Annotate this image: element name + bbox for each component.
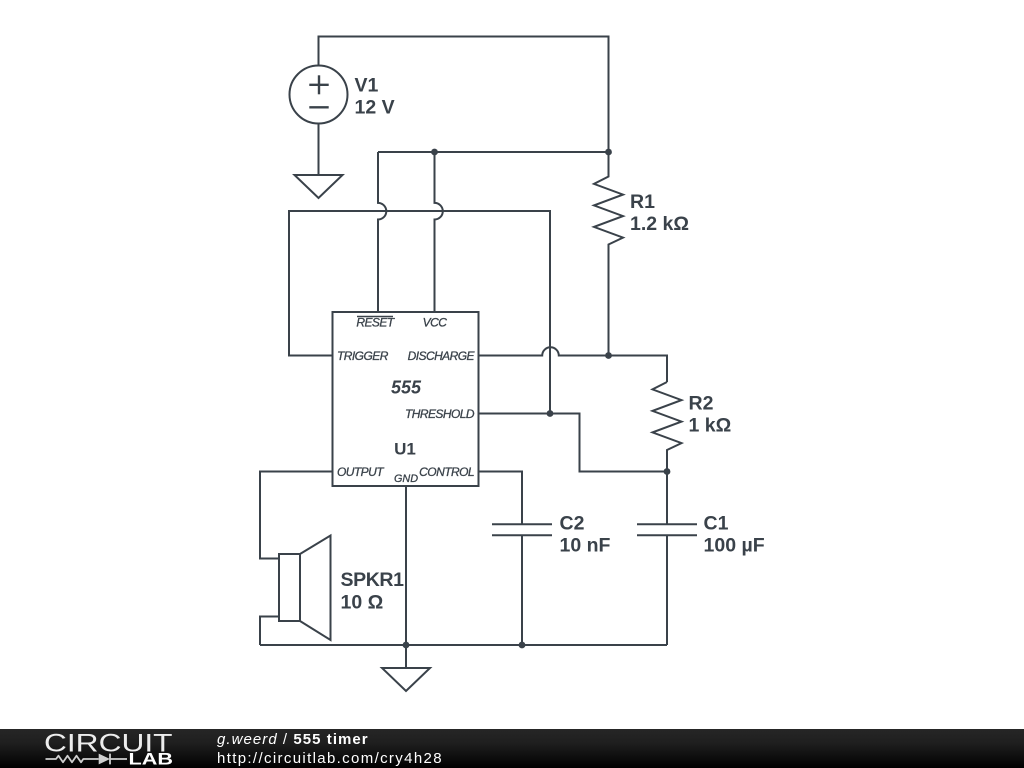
wire: VCC vertical with hop bbox=[435, 152, 443, 312]
svg-text:RESET: RESET bbox=[356, 316, 395, 330]
wire: V1 plus to top rail and down to R1 node bbox=[319, 37, 609, 153]
wire: C2 bottom lead bbox=[521, 535, 523, 645]
node: C2 bottom junction bbox=[519, 642, 526, 649]
svg-text:TRIGGER: TRIGGER bbox=[337, 349, 389, 363]
svg-text:DISCHARGE: DISCHARGE bbox=[408, 349, 476, 363]
svg-text:C1: C1 bbox=[704, 513, 729, 535]
svg-text:LAB: LAB bbox=[129, 751, 174, 768]
wire: supply rail y=152 bbox=[378, 151, 609, 153]
svg-text:555: 555 bbox=[391, 378, 422, 398]
capacitor C1 bbox=[637, 524, 697, 535]
node: threshold junction bbox=[547, 410, 554, 417]
svg-text:1 kΩ: 1 kΩ bbox=[689, 415, 732, 437]
svg-text:THRESHOLD: THRESHOLD bbox=[405, 407, 475, 421]
svg-text:10 Ω: 10 Ω bbox=[341, 592, 384, 614]
wire: C1 bottom lead bbox=[666, 535, 668, 645]
op-amp/timer IC U1 box bbox=[333, 312, 479, 486]
label V1 value bbox=[355, 75, 395, 119]
svg-text:GND: GND bbox=[394, 473, 418, 485]
wire: V1 minus to ground bbox=[318, 123, 320, 176]
CircuitLab logo resistor-diode glyph bbox=[46, 754, 128, 765]
svg-text:C2: C2 bbox=[560, 513, 585, 535]
wire: trigger/threshold net bbox=[289, 211, 550, 414]
svg-text:12 V: 12 V bbox=[355, 97, 395, 119]
label R2 value bbox=[689, 393, 732, 437]
svg-text:R1: R1 bbox=[630, 191, 655, 213]
svg-text:U1: U1 bbox=[394, 440, 416, 459]
svg-text:R2: R2 bbox=[689, 393, 714, 415]
wire: discharge net with hop over trigger vertical bbox=[479, 347, 668, 382]
wire: ground stem bbox=[405, 645, 407, 668]
ground (bottom) bbox=[382, 668, 430, 691]
footer url bbox=[217, 750, 443, 767]
label C1 value bbox=[704, 513, 765, 557]
wire: threshold net bbox=[479, 414, 668, 472]
footer credit text bbox=[217, 731, 369, 748]
overline for RESET pin label bbox=[357, 316, 393, 318]
wire: bottom ground rail bbox=[260, 644, 667, 646]
wire: speaker bottom terminal to ground rail bbox=[260, 617, 279, 646]
node: discharge junction bbox=[605, 352, 612, 359]
svg-text:V1: V1 bbox=[355, 75, 379, 97]
speaker SPKR1 bbox=[279, 536, 331, 641]
voltage source V1 bbox=[290, 66, 348, 124]
svg-text:SPKR1: SPKR1 bbox=[341, 569, 405, 591]
label R1 value bbox=[630, 191, 689, 235]
wire: C1 top lead bbox=[666, 472, 668, 525]
node: gnd rail junction bbox=[403, 642, 410, 649]
label C2 value bbox=[560, 513, 611, 557]
resistor R1 bbox=[594, 152, 623, 356]
ground (V1) bbox=[295, 175, 343, 198]
wire: RESET vertical with hop bbox=[378, 152, 386, 312]
svg-text:1.2 kΩ: 1.2 kΩ bbox=[630, 213, 689, 235]
svg-text:100 µF: 100 µF bbox=[704, 535, 765, 557]
pin labels U1 bbox=[337, 316, 476, 486]
svg-text:10 nF: 10 nF bbox=[560, 535, 611, 557]
resistor R2 bbox=[653, 382, 682, 472]
wire: output to speaker bbox=[260, 472, 333, 559]
node: R2/C1 junction bbox=[664, 468, 671, 475]
svg-text:OUTPUT: OUTPUT bbox=[337, 465, 385, 479]
svg-text:CONTROL: CONTROL bbox=[419, 465, 474, 479]
svg-text:VCC: VCC bbox=[423, 316, 448, 330]
wire: U1 GND pin down bbox=[405, 486, 407, 645]
label SPKR1 value bbox=[341, 569, 405, 614]
node: R1 top junction bbox=[605, 149, 612, 156]
node: VCC junction bbox=[431, 149, 438, 156]
wire: control pin to C2 bbox=[479, 472, 523, 525]
footer bar bbox=[0, 729, 1024, 768]
capacitor C2 bbox=[492, 524, 552, 535]
